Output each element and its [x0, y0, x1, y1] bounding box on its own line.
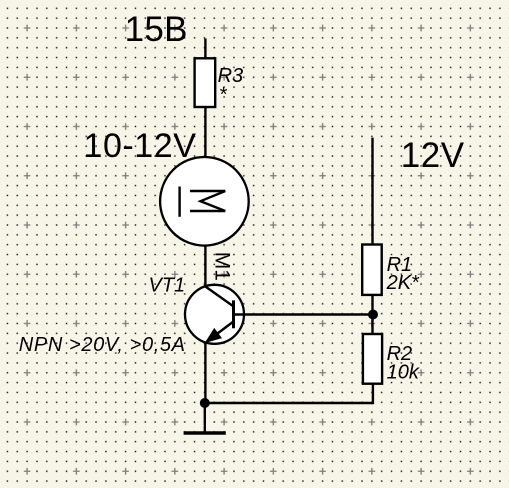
transistor VT1 body [185, 285, 244, 344]
wire from 15V to R3 top [204, 39, 206, 61]
svg-text:10k: 10k [387, 362, 420, 384]
svg-text:15B: 15B [125, 10, 188, 49]
svg-text:10-12V: 10-12V [84, 127, 197, 165]
resistor R3 [195, 58, 216, 107]
svg-text:2K*: 2K* [386, 272, 420, 294]
svg-text:*: * [219, 84, 228, 106]
wire R1 bottom to R2 top [371, 295, 373, 334]
wire from R3 bottom to motor [204, 107, 206, 159]
wire 12V rail to R1 [371, 138, 373, 245]
junction node emitter/ground/R2 [200, 398, 210, 408]
svg-text:NPN >20V, >0,5A: NPN >20V, >0,5A [19, 334, 186, 356]
resistor R2 [363, 334, 382, 384]
transistor VT1 base bar [232, 300, 235, 328]
wire R2 bottom to corner [372, 384, 374, 405]
base wire from VT1 to R1/R2 junction [235, 313, 373, 315]
svg-text:M1: M1 [211, 252, 234, 281]
ground [184, 431, 226, 434]
motor M1 body [160, 157, 249, 246]
transistor VT1 emitter lead [208, 322, 233, 341]
resistor R1 [362, 245, 382, 295]
transistor VT1 emitter arrow [207, 330, 220, 342]
junction node base/R1/R2 [368, 310, 378, 320]
motor symbol M (rotated M with DC bar) [180, 187, 226, 217]
wire from motor bottom to transistor collector [204, 246, 206, 288]
svg-text:12V: 12V [401, 136, 465, 175]
wire junction to ground [204, 403, 206, 432]
transistor VT1 collector lead [205, 287, 233, 307]
bottom wire from junction to R2 [205, 402, 373, 404]
svg-text:VT1: VT1 [149, 275, 186, 297]
emitter wire down [204, 342, 206, 403]
